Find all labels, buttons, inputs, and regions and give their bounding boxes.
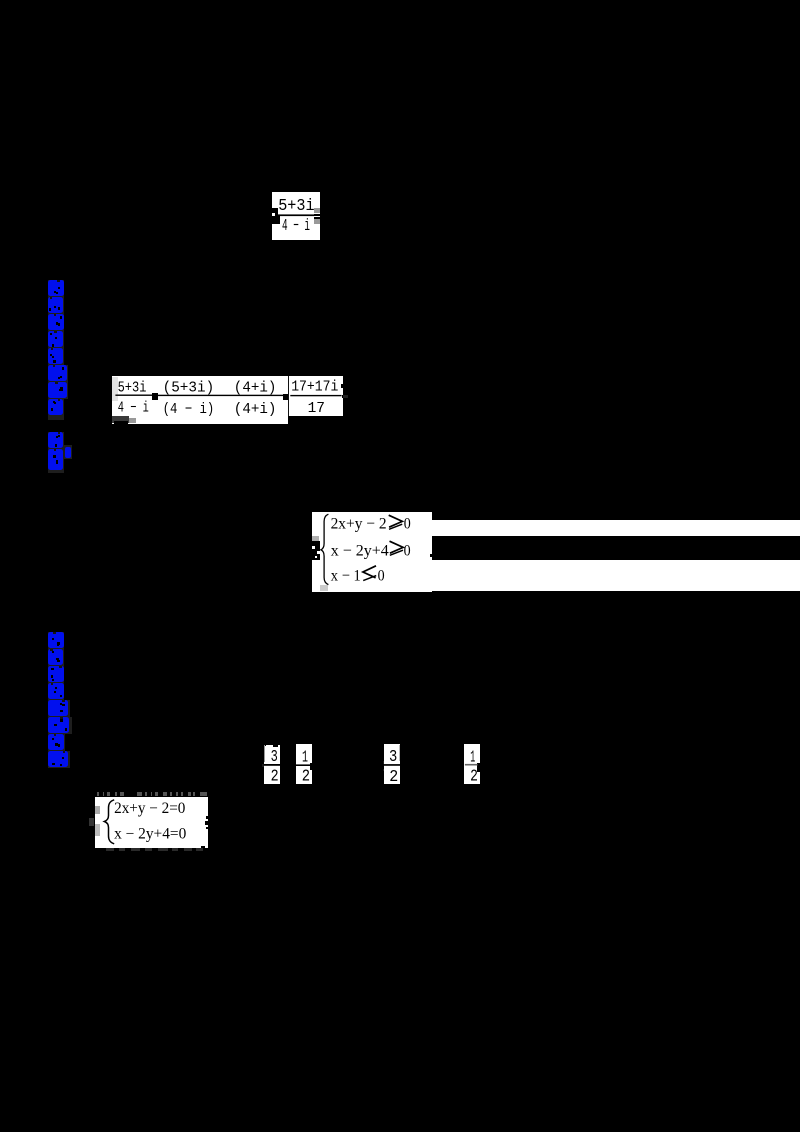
choice fraction 2 edge artifacts [310, 763, 312, 770]
svg-text:17+17i: 17+17i [291, 379, 338, 396]
svg-text:2: 2 [302, 767, 310, 786]
svg-text:(4 − i): (4 − i) [163, 401, 215, 418]
svg-text:0: 0 [404, 543, 411, 560]
svg-text:4 − i: 4 − i [282, 216, 310, 235]
blue char col2-5 [48, 700, 70, 717]
formula image: system of inequalities [312, 512, 432, 592]
cut-off text marks below equation image [106, 848, 114, 851]
F2 fraction 2 bar [158, 395, 285, 396]
formula image: result fraction (17+17i)/17 [289, 376, 343, 416]
col1 trailing gray cell [48, 416, 65, 420]
choice fraction 4 edge artifacts [477, 763, 480, 772]
svg-text:(5+3i): (5+3i) [163, 379, 215, 396]
F2 left edge light strip [112, 377, 118, 401]
svg-text:2x+y − 2: 2x+y − 2 [331, 516, 387, 533]
F2 result fraction bar [290, 395, 341, 396]
blue char col1-7 [48, 382, 69, 399]
formula image: fraction (5+3i)/(4-i) [272, 192, 320, 240]
blue char col2-6 [48, 717, 72, 734]
white highlight band, inequality line 3 [432, 560, 800, 592]
cut-off text strip above equation image [97, 792, 104, 797]
svg-text:(4+i): (4+i) [234, 401, 277, 418]
blue char col1-2 [48, 297, 65, 314]
choice fraction 1 bar [264, 764, 280, 766]
inequality image right-edge dot [430, 554, 432, 557]
F2B right-edge dot and dash artifacts [341, 384, 344, 387]
choice fraction image 3/2 [264, 745, 280, 784]
F2 gap between image parts [288, 376, 289, 416]
svg-text:5+3i: 5+3i [118, 380, 147, 397]
blue char col2-7 [48, 734, 65, 751]
svg-text:3: 3 [271, 747, 278, 766]
blue char col1-5 [48, 348, 65, 365]
formula image: complex division working, left part [112, 376, 288, 424]
choice fraction image 1/2 (2nd) [464, 744, 480, 784]
blue char col1-1 [48, 280, 65, 297]
F2 equals squares [152, 393, 158, 400]
blue char col1 side bump [64, 445, 72, 459]
F2 fraction 1 bar [115, 395, 152, 396]
F1 equals sign bars at right edge [314, 214, 321, 216]
white highlight band, inequality line 1 [432, 520, 800, 536]
svg-text:0: 0 [404, 516, 411, 533]
svg-text:x − 2y+4=0: x − 2y+4=0 [114, 825, 186, 842]
inequality image left gray square [312, 536, 319, 542]
svg-text:(4+i): (4+i) [234, 379, 277, 396]
blue char col1-9 [48, 432, 65, 449]
svg-text:5+3i: 5+3i [278, 196, 314, 215]
svg-text:17: 17 [308, 400, 325, 417]
choice fraction 4 bar (gray) [465, 764, 478, 766]
svg-text:2: 2 [470, 767, 478, 786]
choice fraction image 3/2 (2nd) [384, 744, 400, 784]
F1 right gray squares [314, 208, 320, 213]
equation image right-edge marks [206, 816, 209, 820]
blue char col1-8 [48, 399, 65, 416]
choice fraction 3 edge artifacts [383, 761, 384, 763]
choice fraction 1 edge artifacts [264, 745, 266, 762]
equation system brace [104, 800, 114, 844]
svg-text:x − 1: x − 1 [331, 567, 361, 584]
F2 bottom-left gray strip artifact [112, 416, 129, 423]
F1 fraction bar [278, 214, 315, 216]
inequality system brace [321, 514, 329, 584]
blue char col1-4 [48, 331, 65, 348]
svg-text:1: 1 [302, 747, 308, 766]
svg-text:x − 2y+4: x − 2y+4 [331, 543, 389, 560]
blue char col2-1 [48, 632, 65, 649]
equation image left gray patches [95, 806, 101, 814]
svg-text:2: 2 [389, 767, 398, 786]
svg-text:2x+y − 2=0: 2x+y − 2=0 [114, 800, 186, 817]
choice fraction 3 bar [384, 764, 400, 766]
choice fraction 2 bar [296, 764, 312, 766]
blue char col1-10 [48, 449, 65, 471]
blue char col2-4 [48, 683, 65, 700]
blue char col2-8 [48, 751, 70, 768]
svg-text:1: 1 [470, 747, 475, 766]
blue char col2-2 [48, 649, 65, 666]
blue char col1-6 [48, 365, 69, 382]
blue char col2-3 [48, 666, 65, 683]
blue char col1-3 [48, 314, 65, 331]
formula image: system of equations [95, 797, 208, 847]
svg-text:2: 2 [271, 767, 279, 786]
inequality image left black glyph artifact [312, 541, 319, 560]
inequality image bottom gray square [320, 585, 329, 591]
svg-text:4 − i: 4 − i [118, 399, 149, 416]
choice fraction image 1/2 [296, 744, 312, 784]
svg-text:3: 3 [389, 747, 397, 766]
svg-text:0: 0 [378, 567, 385, 584]
F1 left black blob artifact [272, 208, 278, 216]
